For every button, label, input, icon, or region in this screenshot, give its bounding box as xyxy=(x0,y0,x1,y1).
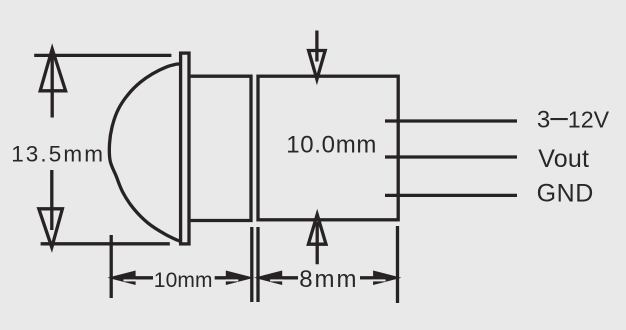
svg-text:12V: 12V xyxy=(568,107,610,133)
dimension shaft 10mm left xyxy=(130,276,153,279)
arrow 13.5mm down xyxy=(39,170,63,247)
extension line block left xyxy=(256,227,259,302)
arrow 13.5mm up xyxy=(40,49,65,118)
arrowhead 10mm left xyxy=(107,271,135,286)
svg-text:10mm: 10mm xyxy=(154,269,213,292)
svg-text:3: 3 xyxy=(537,107,550,134)
wire Vout xyxy=(385,155,517,158)
wire GND xyxy=(385,194,517,197)
dimension line 13.5mm bottom xyxy=(41,242,170,245)
svg-text:10.0mm: 10.0mm xyxy=(286,132,377,159)
svg-text:Vout: Vout xyxy=(538,145,589,173)
lens dome xyxy=(109,64,181,242)
extension line body right xyxy=(250,227,253,302)
svg-text:13.5mm: 13.5mm xyxy=(11,141,105,166)
svg-text:GND: GND xyxy=(537,180,594,208)
dimension shaft 8mm left xyxy=(281,276,298,279)
label 3-12V dash xyxy=(550,118,567,120)
dimension shaft 8mm right xyxy=(360,276,376,279)
dimension line 13.5mm top xyxy=(34,54,171,57)
extension line lens tip xyxy=(110,235,113,298)
arrow 10.0mm up (bottom) xyxy=(308,215,326,265)
arrowhead 10mm right xyxy=(226,271,254,286)
extension line block right xyxy=(396,226,399,303)
wire 3-12V xyxy=(385,119,517,122)
arrowhead 8mm right xyxy=(373,271,401,286)
svg-text:8mm: 8mm xyxy=(299,266,358,293)
sensor body xyxy=(191,76,251,220)
terminal block xyxy=(258,76,398,220)
lens flange xyxy=(181,53,189,244)
dimension shaft 10mm right xyxy=(215,276,240,279)
arrowhead 8mm left xyxy=(254,271,282,286)
arrow 10.0mm down (top) xyxy=(309,31,326,80)
